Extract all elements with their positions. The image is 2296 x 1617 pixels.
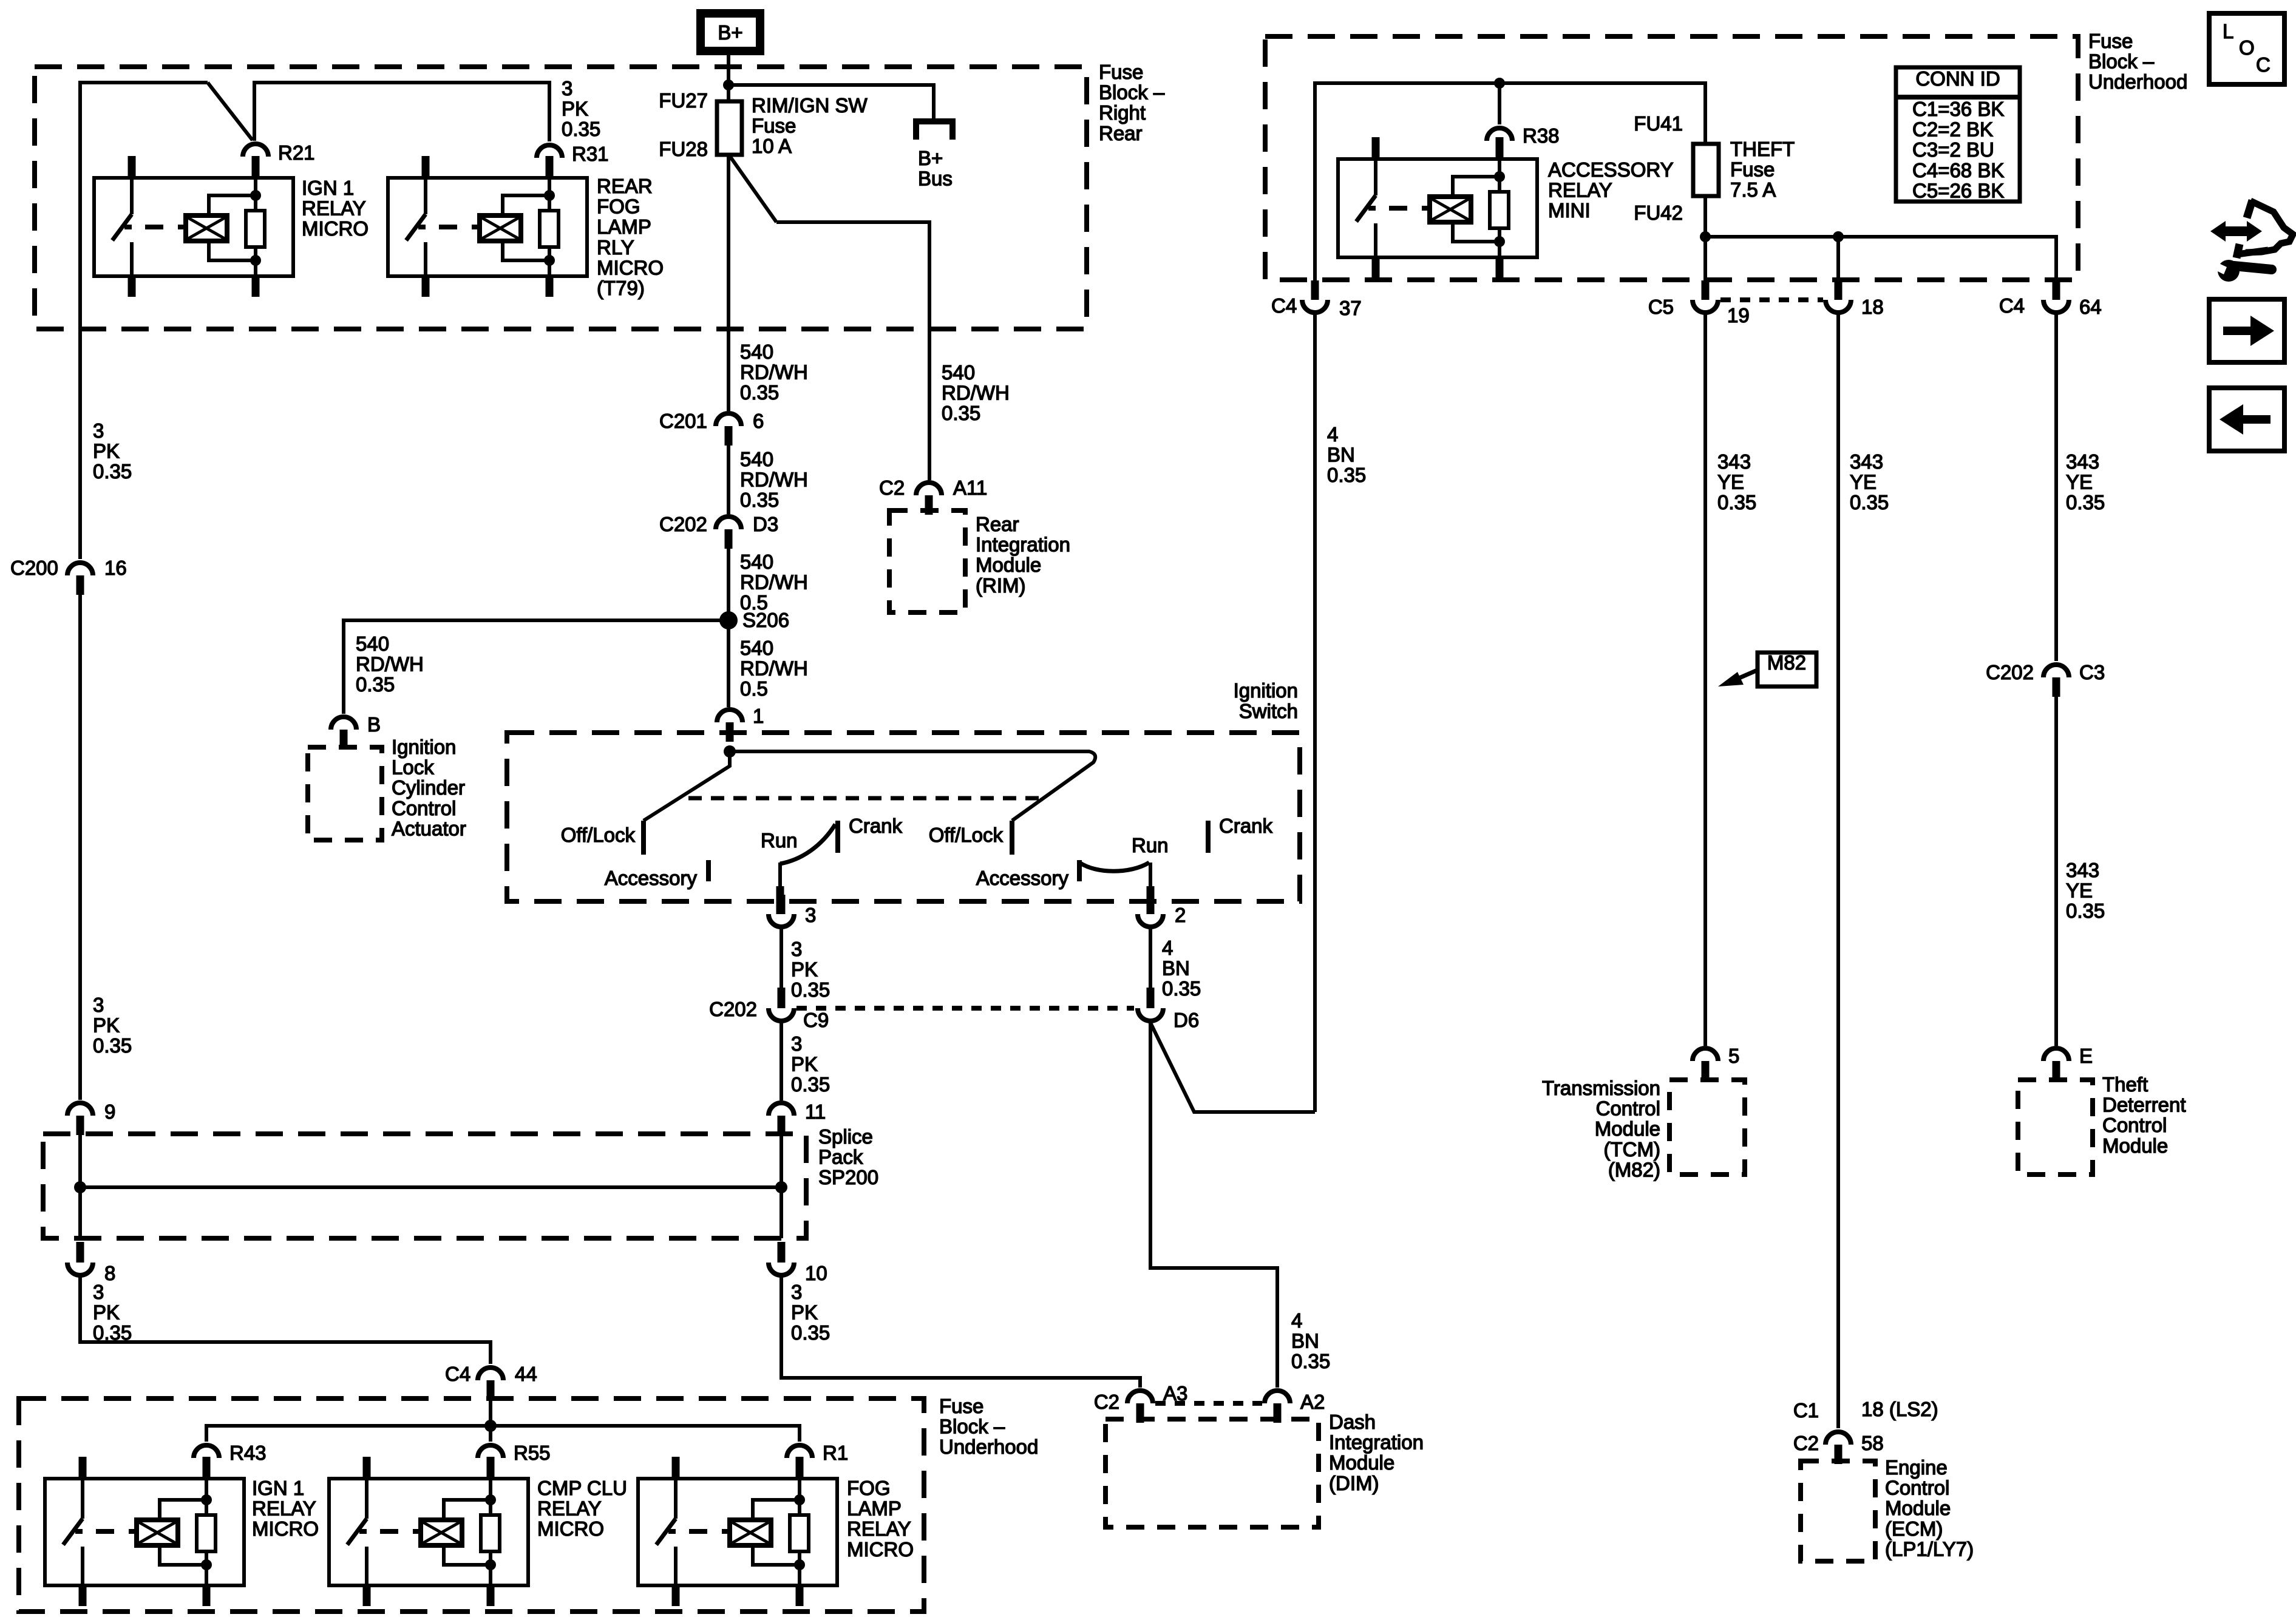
svg-text:C2: C2 bbox=[1094, 1391, 1119, 1413]
svg-text:Fuse: Fuse bbox=[939, 1395, 983, 1417]
svg-text:Underhood: Underhood bbox=[939, 1436, 1038, 1458]
svg-text:3: 3 bbox=[791, 1281, 802, 1303]
svg-text:Fuse: Fuse bbox=[752, 115, 796, 137]
svg-text:FU42: FU42 bbox=[1634, 202, 1683, 224]
connector R38 bbox=[1487, 128, 1512, 141]
svg-text:C5: C5 bbox=[1648, 296, 1674, 318]
engine control module ECM (dashed box) bbox=[1801, 1461, 1875, 1561]
M82 arrow bbox=[1735, 670, 1759, 680]
Accessory contact 2 bbox=[1077, 860, 1082, 881]
svg-text:YE: YE bbox=[2066, 471, 2093, 493]
dotted connector line C202 (C9 to D6) bbox=[796, 1006, 1134, 1011]
svg-text:RD/WH: RD/WH bbox=[356, 653, 424, 676]
svg-text:3: 3 bbox=[562, 77, 572, 100]
wire S206 branch to ignition lock actuator B bbox=[344, 620, 729, 714]
wire 8 to C4-44 bbox=[80, 1277, 491, 1364]
splice S206 bbox=[719, 611, 738, 629]
svg-text:PK: PK bbox=[93, 1301, 120, 1324]
svg-text:Underhood: Underhood bbox=[2088, 70, 2187, 93]
svg-text:3: 3 bbox=[93, 994, 104, 1016]
svg-text:0.35: 0.35 bbox=[2066, 900, 2105, 922]
wire S206 to ignition switch pin 1 bbox=[727, 620, 730, 707]
connector C201-6 bbox=[716, 413, 741, 426]
svg-text:0.35: 0.35 bbox=[2066, 491, 2105, 514]
svg-text:Right: Right bbox=[1099, 101, 1146, 124]
svg-text:Pack: Pack bbox=[818, 1146, 863, 1168]
svg-text:C202: C202 bbox=[709, 998, 757, 1020]
svg-text:Control: Control bbox=[392, 797, 456, 819]
svg-text:SP200: SP200 bbox=[818, 1166, 878, 1188]
wire C202-D3 to S206 bbox=[727, 549, 730, 620]
svg-text:0.35: 0.35 bbox=[740, 381, 779, 404]
fuse block - underhood top right (dashed outline) bbox=[1265, 36, 2078, 280]
svg-text:B+: B+ bbox=[918, 147, 943, 169]
svg-text:PK: PK bbox=[791, 958, 818, 981]
svg-text:C202: C202 bbox=[1986, 661, 2034, 683]
svg-text:0.35: 0.35 bbox=[562, 118, 600, 140]
connector 11 bbox=[769, 1103, 794, 1116]
svg-text:YE: YE bbox=[1717, 471, 1744, 493]
svg-text:RD/WH: RD/WH bbox=[740, 571, 808, 594]
svg-text:7.5 A: 7.5 A bbox=[1730, 178, 1776, 201]
svg-text:3: 3 bbox=[791, 1032, 802, 1055]
svg-text:C3: C3 bbox=[2079, 661, 2105, 683]
wire FU42 to branch bus bbox=[1703, 196, 1707, 237]
svg-text:Fuse: Fuse bbox=[1730, 158, 1775, 181]
svg-text:C5=26 BK: C5=26 BK bbox=[1912, 179, 2004, 202]
svg-text:6: 6 bbox=[753, 410, 764, 432]
svg-text:Module: Module bbox=[1885, 1497, 1951, 1519]
svg-text:Transmission: Transmission bbox=[1542, 1077, 1660, 1099]
svg-text:Deterrent: Deterrent bbox=[2102, 1094, 2186, 1116]
connector 1 (ignition switch) bbox=[717, 710, 742, 722]
svg-text:C1: C1 bbox=[1793, 1399, 1819, 1422]
wire: C200-16 feed up-left, over to relay R21 bbox=[80, 83, 208, 559]
svg-text:Control: Control bbox=[1885, 1477, 1949, 1499]
wire down to 18 bbox=[1836, 237, 1840, 283]
svg-text:540: 540 bbox=[740, 448, 773, 470]
svg-text:RELAY: RELAY bbox=[847, 1517, 911, 1540]
svg-text:10 A: 10 A bbox=[752, 135, 792, 157]
relay R1 FOG LAMP RELAY MICRO bbox=[638, 1479, 837, 1585]
wire: R21 to R31 feed bbox=[254, 83, 549, 141]
Crank contact 2 bbox=[1206, 821, 1211, 853]
connector C202-C3 bbox=[2043, 665, 2069, 677]
branch bus wire FU42 bbox=[1705, 237, 2056, 283]
connector C4-64 bbox=[2043, 300, 2069, 313]
svg-text:C4=68 BK: C4=68 BK bbox=[1912, 159, 2004, 181]
svg-text:Module: Module bbox=[1595, 1117, 1660, 1140]
svg-text:C2: C2 bbox=[879, 476, 905, 499]
svg-text:64: 64 bbox=[2079, 296, 2102, 318]
Crank contact 1 bbox=[835, 821, 840, 853]
svg-text:10: 10 bbox=[805, 1262, 827, 1284]
Off/Lock contact 1 bbox=[641, 821, 646, 855]
svg-text:37: 37 bbox=[1339, 297, 1362, 319]
svg-text:MICRO: MICRO bbox=[252, 1517, 319, 1540]
svg-text:Control: Control bbox=[1596, 1097, 1660, 1120]
connector C202-D6 bbox=[1138, 1008, 1163, 1021]
mechanical link (dotted) between switch decks bbox=[688, 796, 1041, 801]
svg-text:RD/WH: RD/WH bbox=[740, 657, 808, 680]
connector R43 bbox=[194, 1445, 219, 1458]
wire FU28 down to C201-6 bbox=[727, 155, 730, 411]
svg-text:IGN 1: IGN 1 bbox=[302, 177, 354, 199]
svg-text:RELAY: RELAY bbox=[1548, 179, 1612, 202]
svg-text:Lock: Lock bbox=[392, 756, 434, 779]
connector 10 bbox=[778, 1242, 786, 1263]
svg-text:Off/Lock: Off/Lock bbox=[561, 824, 636, 846]
svg-text:S206: S206 bbox=[742, 609, 789, 631]
svg-text:Engine: Engine bbox=[1885, 1456, 1948, 1479]
svg-text:Ignition: Ignition bbox=[392, 736, 456, 758]
svg-text:343: 343 bbox=[1850, 450, 1883, 473]
svg-text:RD/WH: RD/WH bbox=[942, 382, 1010, 404]
svg-text:Theft: Theft bbox=[2102, 1073, 2148, 1096]
svg-text:C201: C201 bbox=[659, 410, 707, 432]
svg-text:FU27: FU27 bbox=[659, 89, 708, 112]
junction dot B+ branch bbox=[723, 80, 734, 90]
connector 5 (TCM) bbox=[1693, 1048, 1718, 1061]
svg-text:Rear: Rear bbox=[1099, 122, 1143, 144]
svg-text:3: 3 bbox=[93, 1281, 104, 1303]
relay R21 IGN 1 RELAY MICRO bbox=[94, 178, 293, 276]
svg-text:RLY: RLY bbox=[597, 236, 634, 259]
connector E (theft module) bbox=[2043, 1048, 2069, 1061]
connector C4-37 bbox=[1302, 300, 1328, 313]
svg-text:(T79): (T79) bbox=[597, 277, 645, 299]
svg-text:Accessory: Accessory bbox=[976, 867, 1069, 889]
svg-text:PK: PK bbox=[562, 98, 588, 120]
svg-text:PK: PK bbox=[791, 1053, 818, 1076]
fuse FU27/FU28 RIM/IGN SW 10A bbox=[717, 101, 742, 155]
dotted connector line C5-19 to 18 bbox=[1720, 297, 1823, 302]
dotted connector line C2 (A3 to A2) bbox=[1155, 1401, 1262, 1406]
svg-text:MICRO: MICRO bbox=[597, 256, 664, 279]
svg-text:LAMP: LAMP bbox=[847, 1497, 902, 1520]
svg-text:R38: R38 bbox=[1523, 124, 1560, 147]
svg-text:5: 5 bbox=[1728, 1045, 1739, 1067]
svg-text:C4: C4 bbox=[1271, 294, 1297, 317]
svg-text:540: 540 bbox=[740, 551, 773, 573]
relay R38 ACCESSORY RELAY MINI bbox=[1338, 159, 1537, 257]
svg-text:CONN ID: CONN ID bbox=[1915, 67, 2000, 90]
svg-text:18 (LS2): 18 (LS2) bbox=[1861, 1398, 1938, 1420]
svg-text:C1=36 BK: C1=36 BK bbox=[1912, 98, 2004, 120]
svg-text:Run: Run bbox=[1132, 834, 1169, 856]
connector R1 bbox=[787, 1445, 812, 1458]
rear integration module RIM (dashed box) bbox=[889, 510, 965, 612]
relay R31 REAR FOG LAMP RLY MICRO (T79) bbox=[388, 178, 587, 276]
connector C1/C2-58 (ECM) bbox=[1826, 1432, 1851, 1445]
svg-text:Block –: Block – bbox=[2088, 50, 2155, 73]
splice pack SP200 (dashed box) bbox=[43, 1134, 806, 1238]
svg-text:E: E bbox=[2079, 1045, 2093, 1067]
wire 18 down to ECM (343 YE) bbox=[1836, 314, 1840, 1428]
svg-text:C2=2 BK: C2=2 BK bbox=[1912, 118, 1993, 141]
svg-text:Splice: Splice bbox=[818, 1125, 873, 1148]
connector 9 bbox=[67, 1103, 93, 1116]
wire down to C5-19 bbox=[1703, 237, 1707, 283]
svg-text:0.35: 0.35 bbox=[740, 489, 779, 511]
svg-text:Run: Run bbox=[761, 829, 798, 852]
connector C2-A11 bbox=[916, 483, 942, 495]
svg-text:B: B bbox=[367, 713, 381, 736]
svg-text:0.35: 0.35 bbox=[1850, 491, 1889, 514]
svg-text:BN: BN bbox=[1327, 444, 1355, 466]
connector 8 bbox=[76, 1242, 84, 1263]
svg-text:C200: C200 bbox=[10, 557, 58, 579]
svg-text:RELAY: RELAY bbox=[252, 1497, 316, 1520]
svg-text:3: 3 bbox=[805, 904, 816, 926]
svg-text:Switch: Switch bbox=[1239, 700, 1298, 722]
svg-text:YE: YE bbox=[1850, 471, 1877, 493]
svg-text:540: 540 bbox=[356, 632, 389, 655]
Accessory contact 1 bbox=[706, 860, 711, 881]
wire C201-6 to C202-D3 bbox=[727, 446, 730, 514]
svg-text:MICRO: MICRO bbox=[847, 1538, 914, 1561]
connector 18 bbox=[1826, 300, 1851, 313]
svg-text:MINI: MINI bbox=[1548, 199, 1591, 222]
svg-text:FOG: FOG bbox=[847, 1477, 891, 1499]
svg-text:1: 1 bbox=[753, 705, 764, 727]
svg-text:(LP1/LY7): (LP1/LY7) bbox=[1885, 1537, 1974, 1560]
connector 2 bbox=[1138, 914, 1163, 927]
svg-text:343: 343 bbox=[2066, 450, 2099, 473]
svg-text:Module: Module bbox=[2102, 1134, 2168, 1157]
svg-text:11: 11 bbox=[805, 1100, 826, 1123]
relay feed bus wire bbox=[206, 1426, 800, 1442]
svg-text:Block –: Block – bbox=[939, 1415, 1005, 1438]
svg-text:(TCM): (TCM) bbox=[1604, 1138, 1660, 1161]
wire C9 down to splice pack 11 bbox=[779, 1023, 783, 1100]
Off/Lock contact 2 bbox=[1010, 821, 1014, 855]
svg-text:3: 3 bbox=[791, 938, 802, 960]
svg-text:343: 343 bbox=[2066, 859, 2099, 881]
svg-text:Module: Module bbox=[976, 554, 1041, 576]
ignition lock cylinder control actuator (dashed box) bbox=[308, 747, 382, 840]
svg-text:CMP CLU: CMP CLU bbox=[537, 1477, 627, 1499]
svg-text:D6: D6 bbox=[1173, 1009, 1199, 1031]
svg-text:Off/Lock: Off/Lock bbox=[929, 824, 1004, 846]
svg-text:Integration: Integration bbox=[976, 534, 1070, 556]
svg-text:58: 58 bbox=[1861, 1432, 1884, 1454]
svg-text:Fuse: Fuse bbox=[2088, 30, 2133, 52]
svg-text:Ignition: Ignition bbox=[1234, 679, 1298, 702]
svg-text:Crank: Crank bbox=[849, 815, 903, 837]
wire D6 diagonal to accessory feed bbox=[1150, 1023, 1315, 1112]
svg-text:343: 343 bbox=[1717, 450, 1751, 473]
svg-text:RD/WH: RD/WH bbox=[740, 469, 808, 491]
svg-text:R21: R21 bbox=[278, 141, 315, 164]
svg-text:RELAY: RELAY bbox=[537, 1497, 602, 1520]
svg-text:(DIM): (DIM) bbox=[1329, 1472, 1379, 1494]
svg-text:R1: R1 bbox=[823, 1442, 848, 1464]
svg-text:THEFT: THEFT bbox=[1730, 138, 1795, 160]
back arrow box bbox=[2209, 388, 2284, 451]
wire C202-C3 down to Theft E bbox=[2054, 697, 2058, 1046]
svg-text:C3=2 BU: C3=2 BU bbox=[1912, 138, 1994, 161]
svg-text:0.35: 0.35 bbox=[1327, 464, 1366, 486]
svg-text:PK: PK bbox=[791, 1301, 818, 1324]
svg-text:540: 540 bbox=[740, 341, 773, 363]
wire C200-16 down to splice pack 9 bbox=[78, 595, 82, 1100]
svg-text:Bus: Bus bbox=[918, 168, 953, 190]
svg-text:BN: BN bbox=[1291, 1330, 1319, 1352]
wire feed across to Off/Lock contact 2 bbox=[730, 751, 1095, 821]
svg-text:0.35: 0.35 bbox=[1162, 977, 1201, 1000]
relay R55 CMP CLU RELAY MICRO bbox=[329, 1479, 528, 1585]
dash integration module DIM (dashed box) bbox=[1106, 1419, 1319, 1527]
svg-text:C9: C9 bbox=[803, 1009, 829, 1031]
wire D6 down to DIM A2 bbox=[1150, 1023, 1277, 1388]
svg-text:Integration: Integration bbox=[1329, 1431, 1424, 1454]
svg-text:FU28: FU28 bbox=[659, 138, 708, 160]
svg-text:(RIM): (RIM) bbox=[976, 574, 1025, 597]
svg-text:0.35: 0.35 bbox=[93, 460, 132, 483]
svg-text:19: 19 bbox=[1727, 304, 1750, 327]
svg-text:FOG: FOG bbox=[597, 195, 640, 218]
wire Run2 down to pin 2 bbox=[1149, 863, 1152, 888]
wire C4-64 down to C202-C3 (343 YE) bbox=[2054, 314, 2058, 661]
wiper Run-Crank (deck 1) bbox=[780, 824, 835, 864]
svg-text:FU41: FU41 bbox=[1634, 112, 1683, 135]
svg-text:ACCESSORY: ACCESSORY bbox=[1548, 158, 1674, 181]
svg-text:M82: M82 bbox=[1767, 651, 1806, 674]
svg-text:R43: R43 bbox=[229, 1442, 267, 1464]
svg-text:4: 4 bbox=[1291, 1309, 1302, 1332]
vehicle navigation icon (car with arrows and wrench) bbox=[2237, 200, 2293, 258]
svg-text:4: 4 bbox=[1162, 937, 1173, 959]
M82 callout box bbox=[1758, 653, 1816, 686]
wire Run1 down to pin 3 bbox=[778, 863, 782, 888]
wire C4-44 to relay bus bbox=[489, 1400, 492, 1426]
svg-text:C202: C202 bbox=[659, 513, 707, 535]
svg-text:B+: B+ bbox=[718, 21, 742, 44]
svg-text:8: 8 bbox=[104, 1262, 115, 1284]
svg-text:2: 2 bbox=[1175, 904, 1186, 926]
junction dot SP200 right bbox=[775, 1181, 787, 1193]
wire C5-19 down to TCM 5 (343 YE) bbox=[1703, 314, 1707, 1046]
connector C202-C9 bbox=[769, 1008, 794, 1021]
svg-text:YE: YE bbox=[2066, 880, 2093, 902]
svg-text:0.5: 0.5 bbox=[740, 677, 768, 700]
svg-text:Rear: Rear bbox=[976, 513, 1019, 535]
B+ terminal box bbox=[701, 13, 760, 51]
theft deterrent control module (dashed box) bbox=[2018, 1080, 2093, 1175]
svg-text:RELAY: RELAY bbox=[302, 197, 366, 220]
svg-text:(ECM): (ECM) bbox=[1885, 1517, 1943, 1540]
svg-text:PK: PK bbox=[93, 440, 120, 463]
svg-text:0.35: 0.35 bbox=[1717, 491, 1756, 514]
junction dot R38 feed bbox=[1494, 78, 1505, 89]
svg-text:LAMP: LAMP bbox=[597, 215, 651, 238]
B+ Bus bracket symbol bbox=[916, 121, 953, 140]
svg-text:Crank: Crank bbox=[1219, 815, 1273, 837]
bus wire inside underhood block bbox=[1315, 83, 1705, 283]
svg-text:RD/WH: RD/WH bbox=[740, 361, 808, 384]
connector C2-A3 bbox=[1127, 1391, 1153, 1403]
svg-text:(M82): (M82) bbox=[1608, 1158, 1660, 1181]
svg-text:3: 3 bbox=[93, 419, 104, 442]
svg-text:18: 18 bbox=[1861, 296, 1884, 318]
svg-text:R55: R55 bbox=[514, 1442, 551, 1464]
svg-text:R31: R31 bbox=[572, 143, 609, 165]
svg-text:BN: BN bbox=[1162, 957, 1190, 980]
svg-text:O: O bbox=[2239, 36, 2255, 59]
wire feed to Off/Lock contact 1 bbox=[644, 751, 730, 821]
junction dot relay bus bbox=[484, 1420, 497, 1432]
svg-text:A2: A2 bbox=[1300, 1391, 1325, 1413]
svg-text:Actuator: Actuator bbox=[392, 817, 466, 839]
svg-text:540: 540 bbox=[740, 637, 773, 659]
wire C4-37 down to D6 junction (4 BN) bbox=[1313, 314, 1317, 1112]
svg-text:0.35: 0.35 bbox=[942, 402, 980, 424]
svg-text:Module: Module bbox=[1329, 1451, 1394, 1474]
connector A2 bbox=[1265, 1391, 1290, 1403]
svg-text:0.35: 0.35 bbox=[791, 978, 830, 1001]
forward arrow box bbox=[2209, 299, 2284, 362]
connector C202-D3 bbox=[716, 517, 741, 529]
wire branch to B+ Bus bbox=[729, 85, 934, 121]
svg-text:C: C bbox=[2256, 53, 2271, 76]
connector C4-44 bbox=[478, 1368, 503, 1380]
CONN ID table bbox=[1896, 67, 2020, 202]
svg-text:Fuse: Fuse bbox=[1099, 61, 1143, 83]
wire 10 to DIM A3 bbox=[781, 1277, 1140, 1388]
svg-text:Control: Control bbox=[2102, 1114, 2167, 1136]
svg-text:D3: D3 bbox=[753, 513, 778, 535]
wire down to R38 bbox=[1498, 83, 1501, 124]
junction dot SP200 left bbox=[74, 1181, 86, 1193]
svg-text:PK: PK bbox=[93, 1014, 120, 1037]
wire pin2 to C202-D6 bbox=[1149, 928, 1152, 989]
splice pack internal wires bbox=[78, 1135, 82, 1238]
connector R55 bbox=[478, 1445, 503, 1458]
svg-text:4: 4 bbox=[1327, 423, 1338, 446]
svg-text:L: L bbox=[2223, 20, 2233, 42]
svg-text:C4: C4 bbox=[1999, 294, 2025, 317]
svg-text:MICRO: MICRO bbox=[537, 1517, 604, 1540]
connector C5-19 bbox=[1693, 300, 1718, 313]
wiper Accessory-Run (deck 2) bbox=[1079, 863, 1149, 871]
svg-text:RIM/IGN SW: RIM/IGN SW bbox=[752, 94, 868, 117]
svg-text:C4: C4 bbox=[445, 1363, 470, 1385]
svg-text:C2: C2 bbox=[1793, 1432, 1819, 1454]
svg-text:Block –: Block – bbox=[1099, 81, 1165, 104]
fuse FU41/FU42 THEFT 7.5A bbox=[1693, 144, 1719, 196]
connector R31 bbox=[537, 145, 562, 158]
transmission control module TCM (dashed box) bbox=[1669, 1080, 1745, 1175]
svg-text:Dash: Dash bbox=[1329, 1411, 1376, 1433]
connector 3 bbox=[769, 914, 794, 927]
fuse block - underhood bottom (dashed outline) bbox=[19, 1398, 924, 1612]
svg-text:MICRO: MICRO bbox=[302, 217, 369, 240]
junction dot ignition feed bbox=[724, 745, 736, 758]
wire FU28 diagonal branch to RIM bbox=[730, 156, 776, 222]
svg-text:0.35: 0.35 bbox=[356, 673, 395, 696]
svg-text:9: 9 bbox=[104, 1100, 115, 1123]
connector R21 bbox=[243, 144, 268, 157]
junction dot C5-19 branch bbox=[1700, 231, 1711, 242]
svg-text:16: 16 bbox=[104, 557, 127, 579]
svg-text:Accessory: Accessory bbox=[605, 867, 698, 889]
svg-text:0.35: 0.35 bbox=[93, 1034, 132, 1057]
svg-text:540: 540 bbox=[942, 361, 975, 384]
fuse block - right rear (dashed outline) bbox=[35, 67, 1087, 329]
svg-text:0.35: 0.35 bbox=[791, 1321, 830, 1344]
svg-text:IGN 1: IGN 1 bbox=[252, 1477, 304, 1499]
